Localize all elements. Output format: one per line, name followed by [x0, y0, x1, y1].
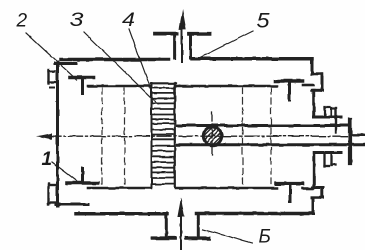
svg-text:Б: Б [259, 227, 271, 248]
svg-text:1: 1 [42, 149, 53, 170]
svg-text:3: 3 [70, 10, 85, 31]
svg-text:5: 5 [257, 9, 270, 32]
svg-text:2: 2 [16, 10, 28, 31]
svg-text:4: 4 [122, 10, 135, 31]
